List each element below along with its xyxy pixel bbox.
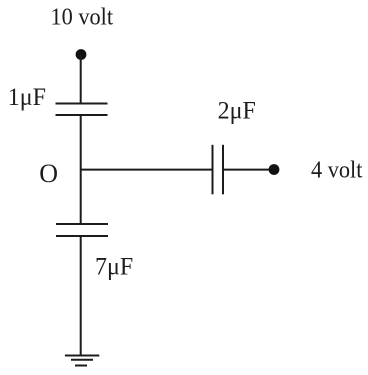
value label: 7μF <box>95 253 133 281</box>
svg-text:4 volt: 4 volt <box>311 157 363 184</box>
capacitor C3 (7μF) <box>56 224 108 236</box>
ground <box>65 356 99 366</box>
svg-text:O: O <box>39 159 58 188</box>
label: 4 volt <box>311 157 363 184</box>
wire: C1 bottom plate through node O down to C3 top plate <box>80 115 82 224</box>
svg-text:1μF: 1μF <box>8 84 46 112</box>
wire: 10V terminal down to C1 top plate <box>80 55 82 104</box>
value label: 2μF <box>218 97 256 125</box>
wire: C3 bottom plate down to ground <box>80 236 82 356</box>
terminal node dot (4 volt) <box>269 164 280 175</box>
value label: 1μF <box>8 84 46 112</box>
svg-text:7μF: 7μF <box>95 253 133 281</box>
node O label <box>39 159 58 188</box>
wire: node O right to C2 left plate <box>81 169 213 171</box>
wire: C2 right plate to 4V terminal <box>223 169 274 171</box>
svg-text:2μF: 2μF <box>218 97 256 125</box>
terminal node dot (10 volt) <box>76 49 87 60</box>
capacitor C2 (2μF) <box>213 145 224 195</box>
label: 10 volt <box>51 4 114 31</box>
capacitor C1 (1μF) <box>56 104 108 116</box>
svg-text:10 volt: 10 volt <box>51 4 114 31</box>
